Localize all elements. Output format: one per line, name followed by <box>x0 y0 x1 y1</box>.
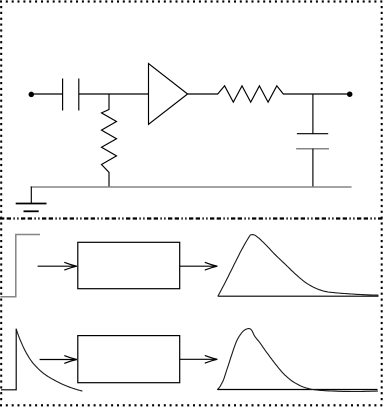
ground <box>16 187 47 212</box>
wire capacitor to amplifier <box>79 93 149 95</box>
output pulse 2 baseline <box>218 389 378 391</box>
wire node to output terminal <box>313 93 349 95</box>
arrow into block 1 <box>38 265 77 267</box>
output pulse 1 baseline <box>218 295 379 297</box>
section divider line <box>0 217 383 219</box>
output pulse 1 waveform <box>218 235 378 296</box>
capacitor C2 <box>297 133 328 135</box>
input terminal node <box>29 92 35 98</box>
resistor R2 (with wires from amp to node) <box>188 86 313 102</box>
output pulse 2 waveform <box>218 329 378 392</box>
wire input to capacitor <box>34 93 63 95</box>
block box 1 <box>78 242 180 288</box>
wire capacitor C2 to ground bus <box>312 149 314 187</box>
block box 2 <box>78 336 180 383</box>
wire node down to capacitor C2 <box>312 94 314 134</box>
arrow out of block 1 <box>180 265 218 267</box>
step input waveform <box>1 235 39 297</box>
resistor R1 (to ground) <box>102 94 117 188</box>
ground bus wire <box>31 186 351 188</box>
arrow into block 2 <box>40 359 77 361</box>
output terminal node <box>347 91 353 97</box>
op-amp U1 <box>149 64 188 125</box>
capacitor C1 <box>63 79 79 111</box>
decaying input waveform <box>1 329 16 390</box>
arrow out of block 2 <box>180 358 218 360</box>
